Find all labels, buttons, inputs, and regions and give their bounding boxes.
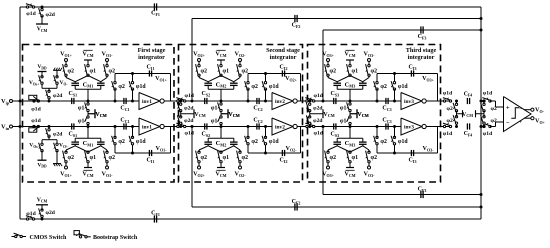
svg-text:φ1: φ1	[90, 155, 97, 161]
node V_O2+ terminal	[198, 166, 201, 169]
switch phi1d (lower, stage3 out to C_F4)	[443, 125, 445, 127]
op-amp inverter inv3 (upper)	[401, 93, 422, 110]
wire feedback loop 3 (bottom, y=194.5)	[323, 194, 481, 196]
node N1 upper stage 1	[87, 100, 90, 103]
wire C_I2 feedback rail	[248, 73, 301, 75]
wire cap common plate bus to node	[74, 86, 76, 90]
svg-text:φ1: φ1	[78, 105, 85, 111]
svg-text:φ1d: φ1d	[483, 131, 493, 137]
svg-text:inv1: inv1	[142, 99, 152, 105]
svg-text:φ2: φ2	[330, 69, 337, 75]
svg-text:φ1d: φ1d	[483, 91, 493, 97]
node V_CM tick	[94, 109, 96, 118]
svg-text:CC2: CC2	[253, 106, 262, 112]
switch phi2d (loop1 top to V_CM)	[41, 6, 44, 9]
capacitor C_F2 (top)	[294, 15, 296, 22]
junction dots input chain	[308, 100, 311, 103]
svg-text:φ1: φ1	[352, 155, 359, 161]
node V_CM tick	[356, 109, 358, 118]
wire inv1 outputs to stage boundary	[164, 100, 183, 102]
capacitor C_I2	[281, 70, 283, 76]
capacitor C_F3 (bottom)	[420, 191, 422, 198]
capacitor C_M1 right	[97, 82, 105, 84]
switch phi1d (feedback connect)	[132, 144, 134, 153]
svg-text:φ1d: φ1d	[314, 131, 324, 137]
svg-text:φ1d: φ1d	[398, 84, 409, 90]
wire lower comparator input	[490, 126, 496, 128]
svg-text:CI2: CI2	[280, 65, 288, 71]
svg-text:VCM: VCM	[462, 112, 473, 118]
switch phi1 (center DAC switch)	[87, 162, 89, 168]
switch phi2 (left DAC switch)	[327, 162, 329, 166]
svg-text:CF3: CF3	[418, 34, 427, 40]
svg-text:CS3: CS3	[331, 91, 340, 97]
svg-text:+: +	[519, 120, 522, 126]
svg-text:φ2: φ2	[242, 155, 249, 161]
switch phi1 to V_CM	[87, 103, 89, 105]
svg-text:integrator: integrator	[408, 54, 435, 61]
switch phi2 (feedback reset)	[376, 74, 378, 83]
svg-text:CS1: CS1	[69, 91, 78, 97]
svg-text:−: −	[506, 120, 510, 127]
junction dots feedback	[264, 152, 267, 155]
switch phi1 (center DAC switch)	[87, 60, 89, 66]
svg-text:φ1: φ1	[90, 69, 97, 75]
svg-text:φ2d: φ2d	[46, 12, 56, 18]
wire DAC switches to cap plates	[327, 150, 329, 152]
svg-text:inv2: inv2	[275, 125, 285, 131]
wire feedback loop 3 (top, y=30)	[323, 29, 481, 31]
svg-text:φ2: φ2	[68, 69, 75, 75]
svg-text:CI3: CI3	[409, 65, 417, 71]
dashed box stage 3 integrator	[308, 45, 441, 183]
node V_CM tick (input chain)	[322, 109, 324, 118]
svg-text:φ2d: φ2d	[184, 105, 194, 111]
node V_CM tick	[94, 109, 96, 118]
capacitor C_I3	[410, 150, 412, 156]
node N1 lower stage 3	[349, 125, 352, 128]
svg-text:CI1: CI1	[147, 158, 155, 164]
svg-text:φ1d: φ1d	[31, 107, 41, 113]
svg-text:φ1: φ1	[211, 118, 218, 124]
svg-text:φ1d: φ1d	[26, 11, 36, 17]
switch V_Os- (to V_DD, lower)	[41, 143, 43, 145]
switch phi2 (left DAC switch)	[198, 162, 200, 166]
switch phi2 chain lower-left to V_CM	[455, 125, 458, 128]
wire input CM chain to V_CM tick	[309, 111, 311, 114]
switch phi2d (lower input CM switch)	[180, 116, 182, 118]
ground (upper bias)	[56, 70, 58, 77]
svg-text:φ2: φ2	[242, 69, 249, 75]
switch phi1 (center DAC switch)	[349, 60, 351, 66]
node N1 lower stage 1	[87, 125, 90, 128]
node V_CM tick (input chain)	[193, 109, 195, 118]
svg-text:φ2: φ2	[201, 155, 208, 161]
switch phi2 (right DAC switch)	[239, 62, 241, 66]
capacitor C_F4 (upper)	[466, 98, 468, 104]
switch phi1d (upper input series switch)	[306, 100, 308, 102]
svg-text:φ2: φ2	[447, 106, 453, 112]
node V_O1- terminal	[106, 166, 109, 169]
switch phi1 to V_CM	[87, 122, 89, 124]
wire feedback loop 2 (top, y=18.5)	[192, 18, 481, 20]
switch phi1d (loop1 top reset)	[26, 6, 28, 8]
capacitor C_S1 (upper)	[71, 98, 73, 104]
capacitor C_S2 (upper)	[204, 98, 206, 104]
switch phi1d (upper, rail to comparator)	[483, 100, 485, 102]
node V_CM tick	[227, 109, 229, 118]
svg-text:inv3: inv3	[404, 125, 414, 131]
node N1 lower stage 2	[220, 125, 223, 128]
wire C_I2 feedback rail	[248, 152, 301, 154]
svg-text:φ1d: φ1d	[136, 139, 147, 145]
node V_CM tick	[227, 109, 229, 118]
wire cap common plate bus to node	[336, 86, 338, 90]
wire outer feedback loop 1 (top, y=7)	[20, 6, 481, 8]
switch phi2 (right DAC switch)	[106, 62, 108, 66]
svg-text:CF1: CF1	[151, 11, 160, 17]
wire right summing rail (x=481)	[480, 7, 482, 219]
svg-text:CS1: CS1	[69, 132, 78, 138]
svg-text:First stage: First stage	[138, 47, 166, 54]
svg-text:inv1: inv1	[142, 125, 152, 131]
switch phi2d (lower input to bias)	[48, 125, 51, 128]
hysteresis symbol	[511, 108, 519, 119]
C_M2 DAC cap block (lower) of stage 2	[193, 127, 248, 178]
svg-text:φ1d: φ1d	[314, 93, 324, 99]
wire cap common plate bus to node	[207, 138, 209, 142]
switch phi2 (right DAC switch)	[106, 162, 108, 166]
svg-text:φ2: φ2	[447, 118, 453, 124]
svg-text:φ2: φ2	[380, 84, 387, 90]
capacitor C_M3 right	[359, 82, 367, 84]
switch phi2 (feedback reset)	[114, 144, 116, 153]
node V_O1+ terminal	[65, 59, 68, 62]
switch phi2 chain upper-right to V_CM	[483, 100, 486, 103]
node V_O1- terminal	[106, 59, 109, 62]
node V_CM tick	[356, 109, 358, 118]
capacitor C_I2	[281, 150, 283, 156]
svg-text:CS2: CS2	[202, 132, 211, 138]
svg-text:φ1d: φ1d	[269, 139, 280, 145]
op-amp inverter inv1 (upper)	[139, 93, 160, 110]
svg-text:φ2d: φ2d	[313, 105, 323, 111]
capacitor C_C1 (lower)	[123, 123, 125, 129]
legend CMOS switch symbol	[12, 236, 15, 238]
comparator U1 (hysteresis)	[504, 97, 532, 132]
switch phi2 chain upper-left to V_CM	[455, 100, 458, 103]
svg-text:CF3: CF3	[418, 187, 427, 193]
svg-text:φ2: φ2	[371, 69, 378, 75]
node V_CM tick (right, comparator front)	[475, 110, 477, 117]
node V_CM terminal	[217, 167, 225, 169]
svg-text:φ1: φ1	[211, 105, 218, 111]
switch phi2d (lower input CM switch)	[309, 116, 311, 118]
wire lower signal rail stage 3	[302, 126, 402, 128]
switch phi1d (feedback connect)	[394, 144, 396, 153]
switch phi2 (right DAC switch)	[368, 162, 370, 166]
capacitor C_M1 left	[71, 141, 79, 143]
svg-text:φ1d: φ1d	[185, 93, 195, 99]
switch phi1 (center DAC switch)	[220, 162, 222, 168]
svg-text:φ2: φ2	[251, 139, 258, 145]
C_M1 DAC cap block (upper) of stage 1	[60, 50, 115, 101]
svg-text:integrator: integrator	[270, 54, 297, 61]
capacitor C_C2 (lower)	[256, 123, 258, 129]
svg-text:φ2: φ2	[201, 69, 208, 75]
switch phi2d (loop1 bottom to V_CM)	[41, 218, 44, 221]
node N1 upper stage 3	[349, 100, 352, 103]
capacitor C_M3 right	[359, 141, 367, 143]
wire input CM chain to V_CM tick	[180, 111, 182, 114]
switch phi1d (feedback connect)	[265, 144, 267, 153]
wire comparator outputs	[524, 109, 531, 111]
wire C_I3 feedback rail	[377, 152, 438, 154]
switch phi2 chain lower-right to V_CM	[483, 125, 486, 128]
capacitor C_F1 (bottom)	[153, 215, 155, 222]
switch phi1 to V_CM	[220, 103, 222, 105]
switch phi1 to V_CM	[220, 122, 222, 124]
wire DAC switches to cap plates	[65, 76, 67, 78]
wire DAC switches to cap plates	[198, 150, 200, 152]
wire cap common plate bus to node	[207, 86, 209, 90]
node V_O1+ terminal	[65, 166, 68, 169]
wire upper signal rail stage 3	[302, 100, 402, 102]
capacitor C_F1 (top)	[153, 3, 155, 10]
wire feedback loop 2 (bottom, y=207)	[192, 206, 481, 208]
svg-text:φ1d: φ1d	[443, 131, 453, 137]
svg-text:Second stage: Second stage	[266, 47, 300, 54]
node V_O3- terminal	[368, 59, 371, 62]
switch phi2 (feedback reset)	[247, 74, 249, 83]
svg-text:φ2d: φ2d	[53, 93, 63, 99]
junction dots feedback	[264, 72, 267, 75]
capacitor C_M2 right	[230, 82, 238, 84]
svg-text:CC1: CC1	[120, 118, 129, 124]
bootstrap switch phi1d (V_in input)	[29, 128, 37, 132]
supply V_DD (lower)	[41, 151, 43, 161]
wire inv2 outputs to stage boundary	[297, 100, 311, 102]
svg-text:φ1: φ1	[352, 69, 359, 75]
svg-text:φ2: φ2	[491, 118, 497, 124]
svg-text:−: −	[519, 107, 522, 113]
switch phi2 (left DAC switch)	[198, 62, 200, 66]
node V_O3+ terminal	[327, 59, 330, 62]
node V_O2- terminal	[239, 166, 242, 169]
junction dots input chain	[179, 100, 182, 103]
svg-text:φ1d: φ1d	[185, 131, 195, 137]
switch phi2 (left DAC switch)	[65, 162, 67, 166]
junction dots feedback	[131, 152, 134, 155]
node V_CM terminal	[217, 59, 225, 61]
svg-text:φ2d: φ2d	[313, 118, 323, 124]
capacitor C_M2 left	[204, 141, 212, 143]
wire bottom of loop 1 (y=219)	[20, 218, 481, 220]
node V_O3- terminal	[368, 166, 371, 169]
supply V_DD (upper)	[41, 72, 43, 77]
switch phi1 to V_CM	[349, 122, 351, 124]
svg-text:CC2: CC2	[253, 118, 262, 124]
capacitor C_F3 (top)	[420, 26, 422, 33]
switch phi1 (center DAC switch)	[349, 162, 351, 168]
port V_ip input terminal	[10, 100, 13, 103]
wire C_I3 feedback rail	[377, 73, 438, 75]
svg-text:CI3: CI3	[409, 158, 417, 164]
svg-text:inv3: inv3	[404, 99, 414, 105]
switch V_Os+ (to V_DD)	[41, 76, 43, 78]
svg-text:φ2: φ2	[330, 155, 337, 161]
node V_CM tick (left, comparator front)	[462, 110, 464, 117]
wire cap common plate bus to node	[74, 138, 76, 142]
dashed box stage 1 integrator	[23, 45, 175, 183]
capacitor C_C3 (upper)	[385, 98, 387, 104]
svg-text:φ2: φ2	[118, 84, 125, 90]
capacitor C_S1 (lower)	[71, 123, 73, 129]
capacitor C_M2 right	[230, 141, 238, 143]
switch phi1d (feedback connect)	[394, 74, 396, 83]
switch phi2 (feedback reset)	[247, 144, 249, 153]
port V_O- output terminal	[531, 108, 534, 111]
op-amp inverter inv3 (lower)	[401, 118, 422, 135]
svg-text:φ1d: φ1d	[31, 118, 41, 124]
C_M3 DAC cap block (upper) of stage 3	[322, 50, 377, 101]
wire cap common plate bus to node	[336, 138, 338, 142]
capacitor C_S3 (lower)	[333, 123, 335, 129]
junction dots feedback	[393, 152, 396, 155]
node V_CM terminal	[84, 59, 92, 61]
svg-text:+: +	[506, 104, 510, 111]
wire upper comparator input	[490, 100, 496, 102]
capacitor C_C3 (lower)	[385, 123, 387, 129]
svg-text:φ2: φ2	[68, 155, 75, 161]
junction dots on loop taps	[191, 100, 194, 103]
node V_O2+ terminal	[198, 59, 201, 62]
wire bias merge bar (lower)	[41, 140, 43, 145]
node V_O2- terminal	[239, 59, 242, 62]
capacitor C_F4 (lower)	[466, 123, 468, 129]
switch phi2 (left DAC switch)	[65, 62, 67, 66]
svg-text:φ1d: φ1d	[398, 139, 409, 145]
switch phi1d (lower, rail to comparator)	[483, 125, 485, 127]
switch V_O- (to ground)	[56, 76, 58, 78]
C_M3 DAC cap block (lower) of stage 3	[322, 127, 377, 178]
switch phi2 (feedback reset)	[376, 144, 378, 153]
capacitor C_M1 left	[71, 82, 79, 84]
wire lower signal rail stage 1	[12, 126, 139, 128]
svg-text:φ2: φ2	[371, 155, 378, 161]
svg-text:Bootstrap Switch: Bootstrap Switch	[93, 235, 138, 241]
svg-text:CI2: CI2	[280, 158, 288, 164]
wire C_I1 feedback rail	[115, 73, 171, 75]
svg-text:φ2d: φ2d	[46, 210, 56, 216]
svg-text:Third stage: Third stage	[406, 47, 437, 54]
svg-text:CC3: CC3	[382, 106, 391, 112]
switch V_O+ (to ground, lower)	[56, 143, 58, 145]
svg-text:CC1: CC1	[120, 106, 129, 112]
wire bias merge bar (upper)	[41, 83, 43, 88]
svg-text:φ2: φ2	[109, 155, 116, 161]
wire DAC switches to cap plates	[198, 76, 200, 78]
svg-text:CC3: CC3	[382, 118, 391, 124]
capacitor C_M3 left	[333, 141, 341, 143]
switch phi2d (upper input to bias)	[48, 100, 51, 103]
capacitor C_C1 (upper)	[123, 98, 125, 104]
svg-text:φ2d: φ2d	[53, 132, 63, 138]
svg-text:CS3: CS3	[331, 132, 340, 138]
capacitor C_M2 left	[204, 82, 212, 84]
switch phi1d (lower input series switch)	[177, 125, 179, 127]
switch phi1d (upper, stage3 out to C_F4)	[443, 100, 445, 102]
wire inv3 outputs to stage boundary	[426, 100, 449, 102]
svg-text:φ1d: φ1d	[136, 84, 147, 90]
capacitor C_S2 (lower)	[204, 123, 206, 129]
dashed box stage 2 integrator	[179, 45, 303, 183]
legend bootstrap switch symbol	[74, 231, 79, 235]
wire lower signal rail stage 2	[173, 126, 273, 128]
svg-text:φ1: φ1	[340, 118, 347, 124]
bootstrap switch phi1d (V_ip input)	[29, 95, 37, 99]
junction dots on right summing rail	[480, 17, 483, 20]
node V_CM (loop1 top)	[36, 23, 48, 25]
capacitor C_C2 (upper)	[256, 98, 258, 104]
svg-text:CS2: CS2	[202, 91, 211, 97]
switch phi2 (right DAC switch)	[368, 62, 370, 66]
junction dots feedback	[131, 72, 134, 75]
switch phi1d (feedback connect)	[265, 74, 267, 83]
node V_CM terminal	[346, 59, 354, 61]
svg-text:φ1d: φ1d	[26, 211, 36, 217]
switch phi1 to V_CM	[349, 103, 351, 105]
capacitor C_S3 (upper)	[333, 98, 335, 104]
wire upper signal rail stage 2	[173, 100, 273, 102]
switch phi1 (center DAC switch)	[220, 60, 222, 66]
switch phi2 (feedback reset)	[114, 74, 116, 83]
capacitor C_I1	[148, 70, 150, 76]
svg-text:φ1: φ1	[223, 69, 230, 75]
switch phi1d (upper input series switch)	[177, 100, 179, 102]
svg-text:φ1: φ1	[340, 105, 347, 111]
svg-text:integrator: integrator	[138, 54, 165, 61]
svg-text:CF2: CF2	[292, 23, 301, 29]
op-amp inverter inv2 (upper)	[272, 93, 293, 110]
port V_O+ output terminal	[531, 117, 534, 120]
capacitor C_M3 left	[333, 82, 341, 84]
node V_CM terminal	[346, 167, 354, 169]
node V_CM terminal	[84, 167, 92, 169]
capacitor C_I1	[148, 150, 150, 156]
wire C_I1 feedback rail	[115, 152, 171, 154]
op-amp inverter inv1 (lower)	[139, 118, 160, 135]
wire left rail of loop 1	[19, 7, 21, 219]
svg-text:φ1d: φ1d	[443, 91, 453, 97]
C_M1 DAC cap block (lower) of stage 1	[60, 127, 115, 178]
svg-text:φ2: φ2	[251, 84, 258, 90]
node V_CM (loop1 bottom)	[36, 204, 48, 206]
ground (lower bias)	[56, 151, 58, 164]
node V_O3+ terminal	[327, 166, 330, 169]
switch phi1d (feedback connect)	[132, 74, 134, 83]
svg-text:φ1: φ1	[223, 155, 230, 161]
switch phi2 (right DAC switch)	[239, 162, 241, 166]
C_M2 DAC cap block (upper) of stage 2	[193, 50, 248, 101]
switch phi2 (left DAC switch)	[327, 62, 329, 66]
junction dots feedback	[393, 72, 396, 75]
capacitor C_M1 right	[97, 141, 105, 143]
switch phi2d (upper input CM switch)	[180, 103, 182, 105]
svg-text:CI1: CI1	[147, 65, 155, 71]
svg-text:φ2d: φ2d	[184, 118, 194, 124]
switch phi2d (upper input CM switch)	[309, 103, 311, 105]
